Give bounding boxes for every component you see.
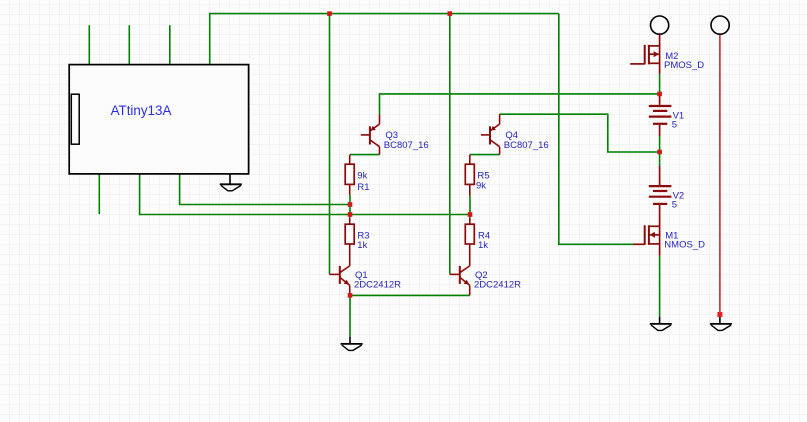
- ground under M1: [650, 317, 672, 331]
- transistor Q3 BC807_16 PNP: [361, 114, 380, 154]
- svg-text:1k: 1k: [357, 240, 367, 251]
- svg-text:BC807_16: BC807_16: [384, 140, 429, 151]
- junction R1/R3 line1: [348, 202, 353, 207]
- junction top bus at Q2 base: [448, 11, 453, 16]
- svg-text:9k: 9k: [357, 170, 367, 181]
- ground under IC: [220, 174, 242, 191]
- junction V1-/V2+: [657, 150, 662, 155]
- wire IC top pin 2: [128, 25, 130, 64]
- svg-text:ATtiny13A: ATtiny13A: [111, 103, 172, 118]
- battery V2 5: [649, 166, 672, 226]
- wire Q2 base vertical: [449, 14, 451, 275]
- svg-text:2DC2412R: 2DC2412R: [474, 280, 521, 291]
- junction R1/R3 line2: [348, 212, 353, 217]
- IC U1 ATtiny13A: [69, 65, 248, 174]
- wire M1 gate: [559, 14, 633, 245]
- transistor Q1 2DC2412R NPN: [330, 244, 350, 295]
- wire Q1-Q2 emitters: [350, 294, 470, 296]
- ground under emitters: [341, 337, 363, 351]
- wire Q3 emitter to V1+ node: [380, 94, 660, 115]
- wire IC pin to R1/R3 node: [180, 174, 350, 205]
- svg-text:R1: R1: [357, 182, 369, 193]
- junction red wire at ground: [717, 312, 722, 317]
- wire Q4 emitter to V1-V2 node: [500, 114, 660, 152]
- svg-text:1k: 1k: [478, 240, 488, 251]
- svg-text:BC807_16: BC807_16: [504, 140, 549, 151]
- wire IC top pin 3: [169, 25, 171, 64]
- junction emitter node: [348, 293, 353, 298]
- mosfet M1 NMOS_D: [633, 225, 660, 255]
- svg-text:9k: 9k: [476, 180, 486, 191]
- battery V1 5: [649, 94, 672, 136]
- junction M2 source / V1+: [657, 92, 662, 97]
- wire R5 top to Q4 collector: [470, 154, 500, 156]
- wire V1 bottom to node to V2 top: [659, 136, 661, 166]
- wire red port 2 down: [719, 34, 721, 314]
- svg-text:PMOS_D: PMOS_D: [664, 60, 704, 71]
- resistor R3 1k: [345, 217, 369, 251]
- wire R1 top to Q3 collector: [350, 154, 380, 156]
- wire M2 source to V1 node: [659, 74, 661, 94]
- transistor Q4 BC807_16 PNP: [481, 114, 500, 154]
- wire IC bottom pin stub: [98, 174, 100, 214]
- wire emitter node to ground: [349, 295, 351, 336]
- wire M1 source to ground: [659, 256, 661, 317]
- resistor R5 9k: [465, 155, 489, 196]
- wire top bus from IC pin to M1 gate column: [210, 14, 559, 65]
- junction R5/R4 line2: [468, 212, 473, 217]
- svg-text:5: 5: [672, 200, 677, 211]
- junction top bus at Q1 base: [327, 11, 332, 16]
- svg-text:2DC2412R: 2DC2412R: [354, 280, 401, 291]
- transistor Q2 2DC2412R NPN: [450, 244, 470, 295]
- resistor R1 9k: [345, 155, 369, 195]
- port circle P1: [651, 16, 669, 34]
- wire IC top pin 1: [88, 25, 90, 64]
- ground under port P2 wire: [710, 315, 732, 331]
- wire IC pin to R5/R4 node: [140, 174, 470, 215]
- resistor R4 1k: [465, 217, 490, 251]
- svg-text:5: 5: [672, 120, 677, 131]
- svg-text:NMOS_D: NMOS_D: [664, 240, 705, 251]
- wire R5 bottom to R4 top: [469, 196, 471, 218]
- mosfet M2 PMOS_D: [630, 34, 659, 74]
- port circle P2: [711, 16, 729, 34]
- wire Q1 base vertical: [329, 14, 331, 275]
- wire R1 bottom to R3 top: [349, 195, 351, 217]
